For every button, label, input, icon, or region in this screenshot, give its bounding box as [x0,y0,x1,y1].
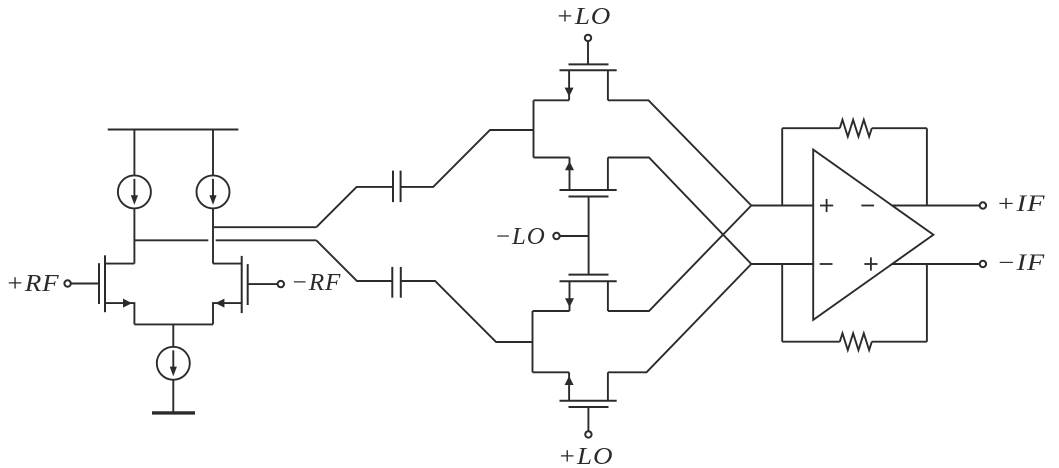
svg-text:+IF: +IF [996,191,1045,216]
svg-text:−IF: −IF [997,250,1046,275]
svg-text:+RF: +RF [6,270,60,297]
svg-text:−LO: −LO [494,224,545,250]
svg-text:−RF: −RF [291,269,341,296]
svg-text:+LO: +LO [556,4,612,30]
svg-text:+LO: +LO [558,444,614,468]
